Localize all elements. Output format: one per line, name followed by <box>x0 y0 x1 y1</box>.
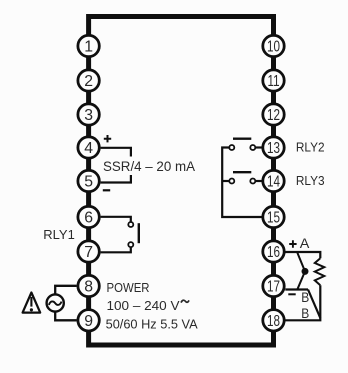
svg-text:A: A <box>300 235 310 251</box>
svg-text:4: 4 <box>84 140 93 157</box>
svg-text:7: 7 <box>84 244 93 261</box>
svg-text:9: 9 <box>84 313 93 330</box>
svg-text:RLY2: RLY2 <box>296 140 325 155</box>
svg-text:8: 8 <box>84 279 93 296</box>
svg-text:17: 17 <box>267 279 280 296</box>
svg-text:3: 3 <box>84 107 93 124</box>
svg-text:13: 13 <box>267 140 280 157</box>
svg-text:16: 16 <box>267 244 280 261</box>
svg-text:6: 6 <box>84 210 93 227</box>
svg-text:5: 5 <box>84 174 93 191</box>
svg-text:POWER: POWER <box>107 280 150 295</box>
svg-text:15: 15 <box>267 210 280 227</box>
svg-text:RLY1: RLY1 <box>43 227 75 242</box>
svg-text:2: 2 <box>84 73 93 90</box>
svg-text:12: 12 <box>267 107 280 124</box>
svg-text:1: 1 <box>84 39 93 56</box>
svg-text:10: 10 <box>267 39 280 56</box>
svg-text:11: 11 <box>268 73 280 90</box>
svg-text:50/60 Hz 5.5 VA: 50/60 Hz 5.5 VA <box>106 317 198 332</box>
svg-text:RLY3: RLY3 <box>296 173 325 188</box>
svg-text:B: B <box>301 289 309 305</box>
svg-text:14: 14 <box>267 174 280 191</box>
svg-text:B: B <box>301 305 309 321</box>
svg-text:18: 18 <box>267 313 280 330</box>
svg-text:100 – 240 V: 100 – 240 V <box>107 298 180 313</box>
svg-text:SSR/4 – 20 mA: SSR/4 – 20 mA <box>103 158 196 174</box>
